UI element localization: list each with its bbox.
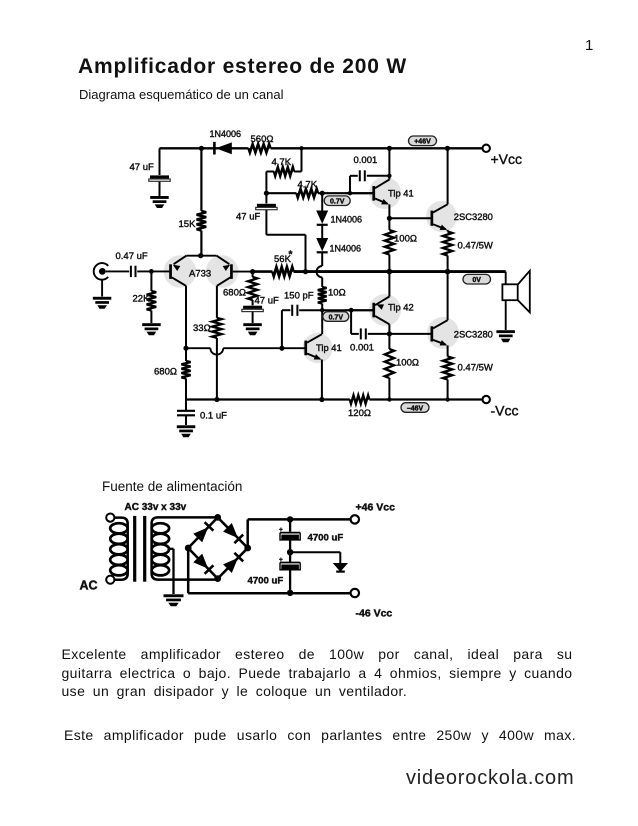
svg-text:0.7V: 0.7V [330,199,345,206]
svg-text:2SC3280: 2SC3280 [454,329,493,340]
wire Tip41 emitter node [387,204,431,230]
transformer primary winding [110,518,127,580]
svg-text:0.001: 0.001 [354,155,378,166]
capacitor 0.47uF input [106,251,170,277]
ground feedback leg [243,323,261,335]
resistor 100ohm lower [385,349,419,400]
wire 0V output rail [387,269,451,275]
svg-text:-46 Vcc: -46 Vcc [356,607,393,619]
svg-text:0.47/5W: 0.47/5W [458,363,493,374]
wire +Vcc top rail [160,147,487,149]
primary terminals AC [106,514,114,584]
capacitor 0.001 Miller lower [350,310,389,353]
wire center tap [168,549,174,594]
terminal +46 Vcc [351,515,359,523]
svg-text:A733: A733 [189,269,211,280]
node dots bias wire [264,191,352,196]
svg-text:680Ω: 680Ω [223,288,246,299]
resistor 15K [179,148,207,255]
wire A733 left collector [183,286,188,351]
svg-text:1N4006: 1N4006 [330,244,362,254]
svg-text:0V: 0V [472,277,481,284]
svg-text:0.1 uF: 0.1 uF [200,411,227,422]
transistor highlight circles [164,177,459,363]
resistor 10ohm [318,287,346,334]
svg-text:+46V: +46V [414,139,431,146]
terminal -46 Vcc [351,589,359,597]
ground input jack [93,297,112,309]
label 0V oval [463,274,491,284]
capacitor 47uF feedback [242,296,279,324]
wire mid node to chassis ground [287,549,340,563]
transistor Q2 2SC3280 upper output [431,204,493,230]
resistor 100ohm upper [385,230,417,271]
svg-text:0.7V: 0.7V [329,314,344,321]
capacitor 150pF [282,291,373,349]
svg-text:AC 33v x 33v: AC 33v x 33v [125,502,187,513]
label 0.7V oval upper [324,196,350,206]
wire -46 rail [188,548,350,596]
svg-text:33Ω: 33Ω [193,323,211,334]
transformer secondary winding [152,517,218,579]
wire A733 right base to feedback node [233,271,253,273]
terminal +Vcc [483,145,523,167]
svg-text:0.001: 0.001 [350,342,374,353]
resistor 22K [133,271,157,323]
svg-text:4.7K: 4.7K [272,157,292,168]
transistor Q3 Tip 42 [345,297,414,325]
svg-text:47 uF: 47 uF [236,212,260,223]
RCA input jack [94,263,109,296]
ground under 47uF [150,196,169,208]
diode D1 1N4006 top rail [210,129,242,155]
wire Tip41 collector to rail [388,148,390,179]
wire -Vcc bottom rail [186,397,486,402]
svg-text:Tip 42: Tip 42 [388,302,414,313]
bridge diode bottom-left [193,554,208,569]
svg-text:22K: 22K [133,294,151,305]
svg-text:Tip 41: Tip 41 [316,342,342,353]
svg-text:-Vcc: -Vcc [491,403,519,419]
resistor 56K feedback [250,250,506,277]
bridge diode bottom-right [223,558,238,573]
svg-text:0.47 uF: 0.47 uF [116,251,148,262]
svg-text:150 pF: 150 pF [284,291,314,302]
svg-text:560Ω: 560Ω [251,134,274,145]
capacitor 0.001 Miller upper [350,155,392,193]
svg-text:+Vcc: +Vcc [491,151,523,167]
svg-text:100Ω: 100Ω [396,358,419,369]
wire Tip42 emitter to 0V rail [388,272,390,297]
svg-text:10Ω: 10Ω [328,288,346,299]
resistor 4.7K upper [266,148,301,193]
resistor 680ohm left [154,348,191,399]
svg-text:120Ω: 120Ω [348,408,371,419]
svg-text:47 uF: 47 uF [255,296,279,307]
ground under 22K [142,323,161,335]
wire +46 rail [248,516,351,548]
wire 2SC3280 lower collector to 0V rail [447,272,449,321]
transformer core [133,516,146,582]
wire VAS base with hop over 33ohm line [186,346,305,355]
node junction dots top rail [199,146,450,151]
resistor 680ohm feedback [223,272,257,306]
diode 1N4006 bias upper [316,193,362,225]
wire Tip42 collector node [387,324,431,349]
capacitor 4700uF upper [279,519,300,552]
resistor 560ohm [249,134,274,153]
diode 1N4006 bias lower [316,225,361,254]
svg-text:0.47/5W: 0.47/5W [458,241,493,252]
svg-text:4700 uF: 4700 uF [248,575,284,586]
wire 2SC3280 collector to rail [447,148,449,204]
svg-text:Tip 41: Tip 41 [388,188,414,199]
resistor 0.47/5W upper [443,230,493,271]
svg-text:47 uF: 47 uF [130,162,154,173]
svg-text:1N4006: 1N4006 [210,129,242,139]
label 0.7V oval lower [323,312,349,322]
transistor Q5 2SC3280 lower output [431,320,493,345]
capacitor 0.1uF [177,400,227,426]
bridge rectifier [185,514,251,582]
svg-text:4.7K: 4.7K [298,179,318,190]
svg-text:100Ω: 100Ω [394,234,417,245]
transistor Q1 Tip 41 upper driver [345,180,414,205]
capacitor 47uF input rail decoupling [130,148,171,196]
resistor 33ohm [193,286,222,400]
transistor Q4 Tip 41 lower driver [304,334,341,359]
svg-text:1N4006: 1N4006 [331,215,363,225]
svg-text:4700 uF: 4700 uF [308,533,344,544]
bridge diode top-right [223,523,238,538]
capacitor 4700uF lower [279,552,300,593]
wire Tip41 lower emitter to rail [321,360,323,400]
svg-text:AC: AC [80,579,98,593]
terminal -Vcc [483,396,519,419]
label -46V oval [401,403,429,413]
ground center tap [164,594,184,606]
resistor 4.7K lower / base wire [266,179,373,197]
svg-text:–46V: –46V [407,405,424,412]
ground speaker [496,330,515,342]
PSU labels [80,501,396,619]
svg-text:15K: 15K [179,219,197,230]
chassis ground arrow [333,563,348,573]
transistor pair A733 [169,253,233,286]
svg-text:+46 Vcc: +46 Vcc [356,501,396,513]
svg-text:680Ω: 680Ω [154,367,177,378]
ground under 0.1uF [177,425,196,437]
bridge diode top-left [193,527,208,542]
speaker [502,271,529,330]
svg-text:2SC3280: 2SC3280 [454,211,493,222]
resistor 120ohm [348,395,371,419]
wire diode chain with hop over 0V wire [317,252,323,287]
resistor 0.47/5W lower [443,345,493,399]
capacitor 47uF bias [236,193,306,271]
svg-text:*: * [289,250,293,261]
label +46V oval [409,136,437,146]
